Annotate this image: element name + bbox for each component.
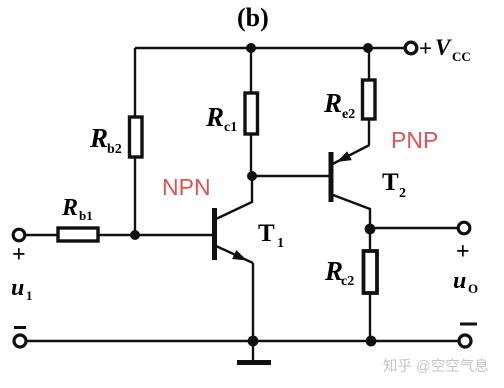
wire Rc1 bottom vertical: [250, 134, 252, 176]
terminal output + circle: [458, 222, 470, 234]
svg-text:+: +: [419, 36, 432, 61]
node junction Rc2/bottom rail: [366, 336, 377, 347]
svg-text:1: 1: [26, 288, 33, 303]
svg-text:V: V: [435, 35, 452, 60]
node junction emitter/ground: [248, 336, 259, 347]
svg-text:R: R: [323, 88, 342, 118]
svg-text:O: O: [468, 281, 478, 296]
transistor Q2 PNP T2: [331, 145, 370, 229]
resistor Re2: [363, 80, 376, 119]
label output minus: [460, 323, 477, 326]
T1 collector wire: [216, 176, 252, 219]
T2 emitter wire with arrow: [333, 145, 370, 164]
svg-text:2: 2: [399, 186, 406, 201]
svg-text:T: T: [382, 169, 399, 196]
wire Rb1 to T1 base: [98, 234, 212, 236]
svg-text:c2: c2: [341, 274, 354, 289]
resistor Rc2: [364, 251, 378, 293]
terminal input - circle: [14, 335, 26, 347]
T1 emitter wire with arrow: [216, 246, 253, 263]
svg-text:T: T: [258, 220, 275, 247]
wire Re2 bottom vertical: [368, 119, 370, 145]
label input minus: [14, 326, 26, 329]
svg-text:1: 1: [277, 236, 284, 251]
wire Rc2 bottom vertical: [369, 293, 371, 341]
node: top junction at Re2: [363, 43, 373, 53]
svg-text:u: u: [11, 275, 24, 301]
resistor Rb2: [130, 117, 143, 157]
svg-text:b2: b2: [107, 142, 122, 157]
T2 base bar: [329, 152, 334, 202]
wire Re2 top vertical: [368, 48, 370, 80]
svg-text:+: +: [456, 239, 470, 265]
svg-text:R: R: [61, 195, 78, 221]
svg-text:c1: c1: [224, 120, 237, 135]
wire input to Rb1: [25, 234, 58, 236]
terminal input + circle: [13, 229, 25, 241]
ground: [237, 341, 271, 363]
wire T2 collector to output: [370, 227, 458, 229]
T1 base bar: [212, 208, 217, 260]
svg-text:PNP: PNP: [391, 127, 438, 153]
svg-text:+: +: [12, 242, 26, 268]
svg-text:e2: e2: [342, 107, 355, 122]
terminal output - circle: [459, 335, 471, 347]
svg-text:NPN: NPN: [162, 174, 211, 200]
svg-text:R: R: [89, 123, 108, 153]
node junction Rc1/T1 collector/T2 base: [247, 171, 257, 181]
svg-text:知乎 @空空气息: 知乎 @空空气息: [383, 358, 489, 375]
node junction Rb2/base: [130, 230, 140, 240]
svg-text:u: u: [453, 268, 466, 294]
svg-text:R: R: [205, 102, 224, 132]
wire Rb2 bottom vertical: [134, 157, 136, 235]
resistor Rc1: [245, 93, 258, 134]
wire T1 emitter vertical: [252, 263, 254, 341]
T2 collector wire: [333, 195, 370, 229]
node junction T2 collector/Rc2: [365, 224, 376, 235]
terminal +Vcc circle: [405, 42, 417, 54]
wire bottom rail: [26, 340, 459, 342]
wire T2 base horizontal: [252, 175, 329, 177]
svg-text:(b): (b): [237, 3, 269, 32]
svg-text:b1: b1: [79, 208, 93, 223]
node: top junction at Rc1: [246, 43, 256, 53]
wire top rail: [135, 47, 405, 50]
svg-text:CC: CC: [452, 49, 471, 64]
wire Rc2 top vertical: [369, 229, 371, 251]
wire Rc1 top vertical: [250, 48, 252, 93]
wire Rb2 top vertical: [134, 48, 136, 117]
transistor Q1 NPN T1: [215, 176, 254, 263]
resistor Rb1: [58, 228, 98, 241]
